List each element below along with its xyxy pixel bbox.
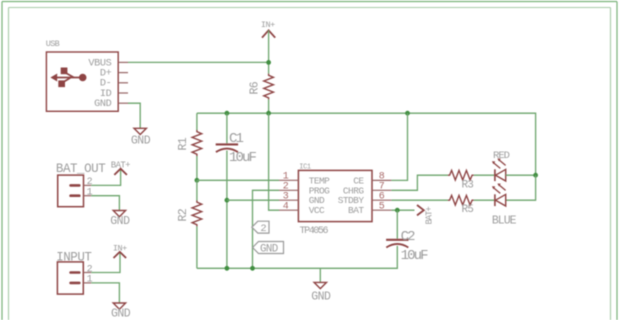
- svg-text:GND: GND: [94, 99, 112, 110]
- capacitor C2: [386, 229, 428, 264]
- INPUT pin 2: [83, 264, 92, 275]
- svg-text:USB: USB: [46, 39, 60, 49]
- svg-text:C1: C1: [229, 131, 244, 147]
- wire CHRG step to R3: [391, 175, 448, 190]
- IC1 pin 8 CE: [353, 172, 391, 187]
- IC1 pin 5 BAT: [348, 202, 391, 217]
- svg-text:R2: R2: [177, 208, 190, 221]
- wire INPUT pin2 to IN+: [91, 253, 120, 273]
- wire C2 to bottom rail: [197, 246, 397, 268]
- svg-text:GND: GND: [111, 307, 131, 320]
- svg-text:R3: R3: [461, 180, 473, 192]
- ground symbol below USB: [131, 128, 151, 147]
- wire C1 to bottom rail: [226, 151, 228, 269]
- svg-text:4: 4: [283, 202, 289, 213]
- wire CE riser: [391, 113, 407, 180]
- wire PROG to flags: [253, 190, 280, 268]
- USB pin D-: [100, 79, 128, 90]
- ground symbol below INPUT: [111, 303, 131, 320]
- wire GND pin3: [227, 199, 279, 201]
- node bottom rail C1 junction: [225, 266, 230, 271]
- wire IN+ down to R6: [268, 30, 270, 73]
- resistor R5: [448, 195, 474, 216]
- node right rail junction: [533, 173, 538, 178]
- net flag 2: [252, 221, 269, 235]
- resistor R2: [177, 180, 202, 226]
- node C1-GND pin junction: [225, 198, 230, 203]
- wire BAT_OUT pin1 to GND: [91, 196, 119, 211]
- svg-text:BAT+: BAT+: [425, 207, 435, 225]
- svg-text:BAT: BAT: [348, 205, 364, 216]
- wire rail to C1: [226, 113, 228, 143]
- wire LED red to right rail: [506, 174, 536, 176]
- USB pin D+: [100, 69, 128, 80]
- wire R1 to TEMP rail: [196, 156, 198, 180]
- wire R5 to LED blue: [474, 199, 495, 201]
- wire bottom rail GND stub: [319, 268, 321, 282]
- svg-text:2: 2: [260, 223, 266, 235]
- wire VBUS to IN+ node: [128, 61, 269, 63]
- LED LED2 blue: [492, 184, 506, 207]
- LED LED1 red: [492, 159, 506, 182]
- supply IN+ arrow left: [113, 244, 127, 258]
- IC1 pin 6 STDBY: [338, 192, 392, 207]
- USB pin ID: [100, 89, 128, 100]
- node BAT junction: [395, 208, 400, 213]
- svg-text:10uF: 10uF: [229, 150, 257, 166]
- wire BAT_OUT pin2 to BAT+: [91, 169, 120, 185]
- wire top rail: [197, 113, 536, 175]
- BAT_OUT pin 2: [84, 177, 93, 188]
- svg-text:R1: R1: [177, 137, 190, 150]
- wire R3 to LED: [474, 174, 495, 176]
- USB pin VBUS: [88, 58, 128, 69]
- node R1-R2 junction: [195, 178, 200, 183]
- ground symbol below IC: [311, 282, 331, 303]
- connector BAT_OUT body: [58, 175, 84, 207]
- BAT_OUT pin 1: [84, 188, 93, 199]
- svg-text:C2: C2: [401, 229, 416, 245]
- IC1 pin 2 PROG: [279, 182, 330, 197]
- node rail-CE junction: [405, 111, 410, 116]
- svg-text:R5: R5: [461, 204, 473, 216]
- svg-text:BAT_OUT: BAT_OUT: [56, 162, 106, 176]
- IC1 pin 1 TEMP: [279, 172, 330, 187]
- svg-text:GND: GND: [260, 243, 278, 255]
- wire R2 to bottom rail: [196, 226, 198, 268]
- wire R6 to top rail: [268, 99, 270, 113]
- node VBUS junction: [266, 60, 271, 65]
- wire VCC line: [269, 113, 279, 210]
- resistor R3: [448, 170, 474, 191]
- wire USB GND down: [128, 103, 140, 128]
- wire rail to R1: [196, 113, 198, 130]
- wire INPUT pin1 to GND: [91, 283, 119, 303]
- supply BAT+ arrow right: [417, 205, 435, 225]
- net flag GND: [253, 242, 284, 256]
- connector INPUT body: [57, 262, 83, 294]
- svg-text:1: 1: [87, 275, 93, 286]
- IC1 pin 7 CHRG: [343, 182, 392, 197]
- USB icon: [50, 68, 86, 88]
- svg-text:1: 1: [87, 188, 93, 199]
- IC1 pin 4 VCC: [279, 202, 325, 217]
- svg-text:GND: GND: [311, 290, 331, 303]
- IC IC1 TP4056 body: [298, 163, 372, 221]
- svg-text:R6: R6: [249, 81, 262, 94]
- svg-text:RED: RED: [493, 150, 510, 162]
- svg-text:5: 5: [379, 202, 385, 213]
- connector USB body: [46, 52, 118, 111]
- supply IN+ arrow top: [261, 20, 275, 38]
- wire TEMP rail: [197, 179, 279, 181]
- svg-text:BLUE: BLUE: [492, 214, 517, 227]
- wire STDBY to R5: [391, 199, 448, 201]
- svg-text:IC1: IC1: [299, 163, 311, 171]
- capacitor C1: [216, 131, 257, 166]
- svg-text:GND: GND: [131, 135, 151, 148]
- node rail-R6 junction: [266, 111, 271, 116]
- svg-text:IN+: IN+: [261, 20, 275, 30]
- wire BAT pin: [391, 209, 414, 211]
- INPUT pin 1: [83, 275, 92, 286]
- USB pin GND: [94, 99, 128, 110]
- node rail-C1 junction: [225, 111, 230, 116]
- supply BAT+ arrow left: [111, 160, 130, 175]
- node bottom rail GND flag junction: [250, 266, 255, 271]
- svg-text:TP4056: TP4056: [300, 226, 329, 237]
- svg-text:GND: GND: [110, 215, 130, 228]
- svg-text:VCC: VCC: [309, 205, 325, 216]
- svg-text:10uF: 10uF: [401, 248, 429, 264]
- wire right rail down to blue LED: [506, 175, 536, 200]
- wire BAT to C2: [396, 210, 398, 239]
- ground symbol below BAT_OUT: [110, 211, 130, 228]
- resistor R6: [249, 74, 274, 100]
- IC1 pin 3 GND: [279, 192, 325, 207]
- resistor R1: [177, 130, 202, 156]
